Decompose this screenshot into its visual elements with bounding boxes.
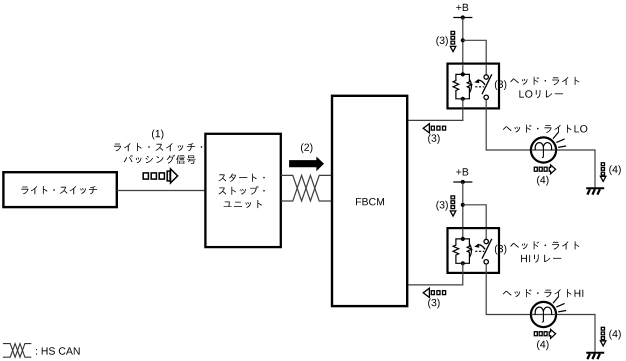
label: head light relay (ヘッド・ライト LOリレー) (510, 77, 579, 85)
junction node (LO) (461, 38, 465, 42)
wire: branch to relay switch contact (HI) (463, 205, 486, 228)
label: (4) below lamp (LO) (537, 176, 548, 186)
twisted pair wires: start-stop unit to FBCM (HS CAN) (281, 175, 332, 201)
label: head light HI (ヘッド・ライトHI) (503, 289, 583, 297)
label: (3) at switch (HI) (495, 245, 506, 255)
lamp rays (HI) (553, 297, 558, 303)
ground symbol (LO) (586, 187, 604, 189)
label: head light relay (ヘッド・ライト HIリレー) (510, 241, 579, 249)
wire: relay switch to head light HI lamp and ground (486, 264, 595, 352)
relay coil: coil element right branch (HI) (463, 239, 472, 263)
wire: coil to FBCM (HI) (409, 263, 463, 285)
relay box (HI) (448, 228, 500, 273)
label: head light LO (ヘッド・ライトLO) (503, 125, 587, 133)
wire: light switch to start-stop unit (117, 190, 206, 192)
legend: HS CAN label (36, 347, 80, 354)
power +B label (HI) (456, 168, 468, 175)
wire: coil to FBCM (LO) (409, 99, 463, 121)
label: light switch passing signal (ライト・スイッチ・パッシング信号) (114, 143, 202, 151)
relay coil node top (LO) (462, 64, 464, 75)
connector symbol (4) at ground wire (LO) (601, 163, 604, 166)
lamp rays (LO) (553, 132, 558, 138)
relay coil node bottom (HI) (461, 261, 465, 265)
connector symbol (3) on FBCM wire: left arrow + squares (LO) (423, 124, 429, 133)
label: (2) (301, 143, 312, 153)
power +B bar (LO) (453, 17, 472, 19)
relay coil: resistor element left branch (HI) (453, 239, 463, 263)
box: FBCM (332, 96, 407, 306)
box: light switch unit (3, 172, 116, 207)
label: (1) (152, 130, 163, 140)
label: (4) at ground wire (LO) (609, 165, 620, 175)
relay switch: top contact (LO) (485, 64, 487, 75)
connector symbol (4) at ground wire (HI) (601, 327, 604, 330)
label: (3) below FBCM wire (HI) (428, 299, 439, 309)
lamp: head light HI bulb (531, 302, 556, 327)
relay switch: blade (HI) (482, 239, 492, 259)
relay switch: blade (LO) (482, 74, 492, 94)
connector symbol (3) vertical on +B wire (LO) (451, 31, 455, 34)
relay actuation: curved arrow (HI) (477, 245, 485, 249)
connector symbol (4) below lamp (LO) (534, 167, 537, 171)
wire: +B down to relay coil (HI) (462, 182, 464, 228)
label: light switch (ライト・スイッチ) (21, 186, 97, 194)
label: (3) (HI) (436, 201, 447, 211)
relay switch: bottom contact (LO) (484, 95, 488, 99)
label: (3) at switch (LO) (495, 80, 506, 90)
relay actuation: curved arrow (LO) (477, 80, 485, 84)
wire: relay switch to head light LO lamp and ground (486, 100, 595, 188)
symbol: black arrow (2) (289, 157, 324, 172)
relay coil: resistor element left branch (LO) (453, 74, 463, 98)
ground symbol (HI) (586, 352, 604, 354)
relay box (LO) (448, 64, 500, 109)
relay coil: coil element right branch (LO) (463, 74, 472, 98)
label: (4) at ground wire (HI) (609, 330, 620, 340)
relay coil node top (HI) (462, 228, 464, 239)
box: start-stop unit (205, 134, 280, 247)
junction node (HI) (461, 203, 465, 207)
label: (3) below FBCM wire (LO) (428, 134, 439, 144)
label: (3) (LO) (436, 36, 447, 46)
label: FBCM (356, 198, 384, 205)
power +B label (LO) (456, 4, 468, 11)
wire: branch to relay switch contact (LO) (463, 40, 486, 63)
relay coil node bottom (LO) (461, 97, 465, 101)
connector symbol (1): three squares with open right arrow (143, 173, 148, 179)
label: start-stop unit (スタート・ストップ・ユニット) (218, 174, 264, 182)
lamp: head light LO bulb (531, 137, 556, 162)
legend: twisted pair symbol (3, 344, 31, 358)
connector symbol (3) on FBCM wire: left arrow + squares (HI) (423, 288, 429, 297)
connector symbol (4) below lamp (HI) (534, 332, 537, 336)
connector symbol (3) vertical on +B wire (HI) (451, 196, 455, 199)
relay switch: bottom contact (HI) (484, 260, 488, 264)
wire: +B down to relay coil (LO) (462, 18, 464, 64)
power +B bar (HI) (453, 181, 472, 183)
label: (4) below lamp (HI) (537, 340, 548, 350)
relay actuation: dashed mechanical link (HI) (475, 250, 484, 252)
relay switch: top contact (HI) (485, 228, 487, 239)
relay actuation: dashed mechanical link (LO) (475, 86, 484, 88)
